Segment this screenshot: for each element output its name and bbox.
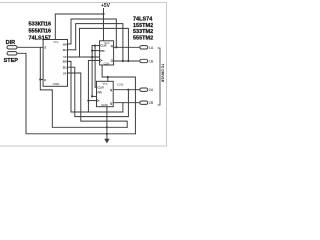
wire mux pin6 down to U3 hline: [68, 73, 128, 127]
wire FF2 Q to 2A: [113, 89, 140, 91]
svg-text:2A: 2A: [149, 88, 154, 92]
svg-text:STEP: STEP: [4, 58, 19, 64]
svg-text:E: E: [44, 78, 46, 82]
svg-text:555ТМ2: 555ТМ2: [133, 36, 153, 42]
wire mux pin5 down to U2 hline: [68, 67, 129, 116]
junction H4 feedback on 1B wire: [127, 60, 129, 62]
wire mux pin2 stub: [68, 49, 76, 51]
wire FF2 D stub: [92, 95, 96, 97]
wire DIR branch down around bottom: [40, 47, 127, 127]
bracket to driver: [158, 48, 161, 105]
clock triangle FF1: [100, 59, 102, 62]
svg-text:155ТМ2: 155ТМ2: [133, 23, 153, 29]
svg-text:2Y: 2Y: [63, 71, 67, 75]
wire H1 Vcc bus mux: [55, 14, 103, 40]
wire FF1 clock vertical to FF2 clock: [87, 61, 89, 113]
svg-text:555КП16: 555КП16: [29, 29, 52, 35]
svg-text:+5V: +5V: [101, 3, 111, 9]
svg-text:2I0: 2I0: [63, 60, 68, 64]
svg-text:2I1: 2I1: [63, 66, 68, 70]
junction 1Y line node: [91, 56, 93, 58]
output terminal 1B: [140, 59, 154, 63]
wire ground drop: [106, 107, 108, 140]
svg-text:CLK: CLK: [104, 62, 110, 66]
ground symbol: [104, 139, 109, 144]
junction FF2 Vcc riser on H77: [107, 76, 109, 78]
svg-text:GND: GND: [53, 82, 61, 86]
svg-text:Vcc: Vcc: [53, 40, 59, 44]
junction U2 riser on 2A wire: [127, 89, 129, 91]
junction H2 feedback on 1A wire: [115, 46, 117, 48]
svg-text:CLR: CLR: [98, 86, 105, 90]
wire mux 1Y to FF1: [68, 56, 100, 58]
input terminal STEP: [7, 52, 17, 55]
wire FF2 top riser: [107, 77, 109, 81]
wire H2 bus / U1 right vertical: [71, 19, 116, 47]
wire FF1 clock stub: [88, 60, 99, 62]
input terminal DIR: [7, 46, 17, 49]
svg-text:1I1: 1I1: [63, 48, 68, 52]
svg-text:GND: GND: [101, 103, 109, 107]
wire mux pin1 stub: [68, 43, 72, 45]
junction FF1 D node: [91, 50, 93, 52]
junction +5V / Vcc bus: [102, 13, 104, 15]
junction H3 feedback on 1B wire: [122, 60, 124, 62]
svg-text:533ТМ2: 533ТМ2: [133, 29, 153, 35]
svg-text:533КП16: 533КП16: [29, 22, 52, 28]
border frame: [0, 3, 167, 147]
clock triangle FF2: [97, 99, 99, 102]
junction mux E on DIR branch: [39, 78, 41, 80]
svg-text:74LS74: 74LS74: [133, 16, 153, 22]
wire U1 hline: [71, 103, 123, 112]
flip-flop U3 74LS74 (FF2) box: [97, 81, 114, 107]
wire mux pin4 down to U1 hline: [68, 61, 72, 112]
wire clock riser to H77: [102, 65, 135, 134]
svg-text:1A: 1A: [149, 46, 154, 50]
wire FF1 Qbar to 1B: [114, 60, 140, 62]
wire FF2 Qbar to 2B: [113, 102, 140, 104]
svg-text:1I0: 1I0: [63, 42, 68, 46]
svg-text:74LS157: 74LS157: [29, 35, 51, 41]
wire H4 bus / U3 right vertical: [80, 28, 129, 61]
svg-text:(1/2): (1/2): [117, 82, 123, 86]
junction ground on bottom rail: [106, 133, 108, 135]
junction FF2 clock node: [87, 100, 89, 102]
output terminal 2A: [140, 88, 154, 92]
svg-text:1B: 1B: [149, 59, 154, 63]
wire FF1 CLR stub: [92, 45, 100, 47]
multiplexer U1 74LS157 box: [43, 40, 67, 87]
svg-text:TO DRIVER: TO DRIVER: [161, 64, 165, 83]
wire +5V rail vertical: [103, 9, 105, 42]
junction FF1 CLR node: [94, 45, 96, 47]
output terminal 2B: [140, 101, 154, 105]
junction ground on loop hline: [106, 126, 108, 128]
wire mux E stub: [40, 79, 43, 81]
svg-text:DIR: DIR: [6, 40, 16, 46]
wire STEP down to bottom rail: [17, 53, 135, 134]
wire FF2 clock stub: [88, 100, 96, 102]
wire FF1 Q to 1A: [114, 46, 140, 48]
wire feedback vertical 1: [91, 46, 93, 97]
junction FF2 D node: [91, 95, 93, 97]
wire DIR to mux S: [17, 46, 43, 48]
svg-text:1Y: 1Y: [63, 55, 67, 59]
output terminal 1A: [140, 46, 154, 50]
wire FF1 D stub: [92, 50, 100, 52]
svg-text:2B: 2B: [149, 101, 154, 105]
wire H3 bus / U2 right vertical: [76, 24, 123, 61]
svg-text:CLR: CLR: [100, 43, 107, 47]
wire feedback vertical 2: [95, 46, 96, 88]
svg-text:S: S: [44, 45, 46, 49]
flip-flop U2 74LS74 (FF1) box: [100, 41, 114, 66]
